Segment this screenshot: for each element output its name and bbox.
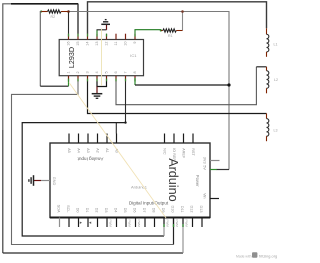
wire: pin6 to coil L2	[116, 67, 256, 105]
svg-text:Made with: Made with	[236, 255, 252, 259]
IC connected pin tips (green)	[69, 34, 136, 82]
svg-text:PWM: PWM	[127, 220, 131, 228]
svg-text:2: 2	[76, 71, 80, 73]
wire: pin7 down to junction	[125, 81, 127, 122]
wire: pin2 to D10 via left loop	[12, 81, 174, 244]
coil L1	[267, 28, 278, 57]
svg-text:9: 9	[133, 42, 137, 44]
svg-text:R1: R1	[168, 34, 173, 38]
svg-text:Digital Input/Output: Digital Input/Output	[129, 201, 169, 206]
svg-text:8: 8	[133, 71, 137, 73]
svg-text:SDA: SDA	[56, 205, 60, 213]
svg-text:5: 5	[105, 71, 109, 73]
ground symbol above IC (pins 12/13)	[97, 20, 111, 34]
svg-text:Power: Power	[195, 175, 200, 187]
wire rail B: pin14 up and right to coil L1	[88, 2, 267, 34]
svg-text:D3: D3	[104, 208, 108, 213]
resistor R2	[40, 10, 68, 19]
svg-text:L2: L2	[274, 78, 278, 82]
svg-text:D7: D7	[142, 208, 146, 213]
svg-text:D12: D12	[189, 206, 193, 213]
wire rail C: 5V rail from R2 junction to Arduino 5V	[69, 12, 230, 170]
watermark	[236, 252, 277, 258]
svg-text:RST: RST	[191, 148, 195, 156]
Arduino right pins: 3V3 5V Vin	[203, 157, 220, 199]
PWM labels	[108, 220, 188, 228]
wire: R2 left lead down to IC pin 1	[39, 12, 42, 87]
IC1 L293D body	[59, 40, 143, 76]
junction pin8/5V	[227, 83, 230, 86]
svg-text:5V: 5V	[203, 165, 207, 170]
wire: R1 riser to rail C	[182, 12, 184, 31]
svg-text:14: 14	[86, 42, 90, 46]
svg-text:16: 16	[67, 42, 71, 46]
Arduino top pin stubs	[69, 134, 193, 144]
Arduino top pin labels	[67, 148, 195, 161]
wire: pin3 to coil L3	[88, 81, 267, 113]
IC pin stubs bottom	[69, 76, 136, 82]
svg-text:A5: A5	[67, 148, 71, 153]
svg-text:A4: A4	[76, 148, 80, 153]
svg-text:15: 15	[76, 42, 80, 46]
svg-text:PWM: PWM	[137, 220, 141, 228]
svg-text:SCL: SCL	[66, 205, 70, 212]
IC pin stubs top	[69, 34, 136, 40]
svg-text:Arduino: Arduino	[166, 158, 180, 201]
ratsnest yellow vertical (gnd nets)	[101, 29, 103, 87]
svg-text:13: 13	[95, 42, 99, 46]
ratsnest yellow diagonal (pin1 to D9)	[69, 83, 166, 219]
svg-text:D8: D8	[151, 208, 155, 213]
IC pin number labels top row 16..9	[67, 42, 138, 46]
svg-text:PWM: PWM	[184, 220, 188, 228]
svg-text:PWM: PWM	[165, 220, 169, 228]
svg-text:3V3: 3V3	[203, 157, 207, 164]
junction R2/rail	[67, 10, 70, 13]
wire: pin8 to 5V rail	[134, 78, 136, 85]
svg-text:GND: GND	[52, 177, 56, 186]
svg-text:fritzing.org: fritzing.org	[259, 254, 277, 259]
svg-text:IO REF: IO REF	[172, 148, 176, 161]
svg-text:A1: A1	[105, 148, 109, 153]
svg-text:N/C: N/C	[162, 148, 166, 155]
svg-text:A2: A2	[95, 148, 99, 153]
svg-text:D1: D1	[85, 208, 89, 213]
Arduino bottom connected pin tips	[164, 224, 183, 227]
svg-text:D5: D5	[123, 208, 127, 213]
svg-text:1: 1	[67, 71, 71, 73]
svg-text:3: 3	[86, 71, 90, 73]
svg-text:IC1: IC1	[130, 53, 137, 58]
svg-text:12: 12	[105, 42, 109, 46]
wire rail A: pin15 to top-left corner and down left edge	[3, 4, 78, 253]
wire: pin9 green riser to R1	[135, 30, 161, 34]
Arduino left pin GND with ground symbol	[29, 175, 56, 186]
svg-text:Analog Input: Analog Input	[77, 156, 104, 161]
Arduino body	[50, 143, 210, 218]
svg-text:7: 7	[124, 71, 128, 73]
svg-text:L293D: L293D	[67, 47, 76, 68]
wire: D9 net to pin7 wire via left loop	[22, 123, 164, 236]
svg-text:PWM: PWM	[108, 220, 112, 228]
svg-text:D6: D6	[132, 208, 136, 213]
svg-text:D2: D2	[94, 208, 98, 213]
svg-text:AREF: AREF	[181, 148, 185, 159]
IC pin number labels bottom row 1..8	[67, 71, 138, 73]
svg-text:10: 10	[124, 42, 128, 46]
svg-text:6: 6	[114, 71, 118, 73]
wire: pin16 riser to rail C junction	[68, 12, 70, 34]
svg-text:PWM: PWM	[175, 220, 179, 228]
svg-text:D0: D0	[75, 208, 79, 213]
svg-text:L3: L3	[274, 128, 278, 132]
junction pin7/D9/A0	[124, 121, 126, 123]
coil L2	[267, 67, 279, 94]
svg-text:D11: D11	[180, 206, 184, 213]
coil L3	[267, 114, 278, 142]
wire: bottom outer loop D11	[3, 252, 183, 254]
svg-text:D10: D10	[170, 206, 174, 213]
svg-text:A3: A3	[86, 148, 90, 153]
ground symbol below IC (pins 4/5)	[92, 81, 107, 98]
wire: spur down to A0	[115, 123, 117, 134]
svg-text:11: 11	[114, 42, 118, 46]
svg-text:R2: R2	[51, 15, 56, 19]
junction R1/rail	[181, 10, 184, 13]
Arduino bottom pin stubs	[60, 218, 203, 228]
serial direction marks D0/D1	[80, 222, 82, 224]
resistor R1	[160, 29, 183, 38]
svg-text:D4: D4	[113, 208, 117, 213]
svg-text:Vin: Vin	[203, 193, 207, 198]
svg-text:D13: D13	[199, 206, 203, 213]
Arduino bottom pin labels	[56, 205, 203, 213]
svg-text:L1: L1	[274, 42, 278, 46]
svg-text:4: 4	[95, 71, 99, 73]
